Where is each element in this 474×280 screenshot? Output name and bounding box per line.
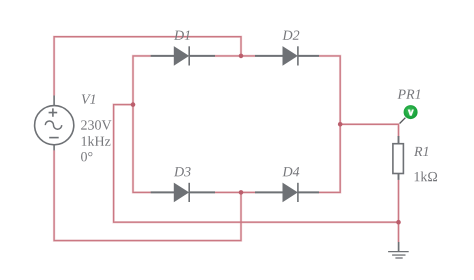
diode D4	[255, 183, 319, 202]
resistor R1	[393, 136, 404, 180]
label R1	[414, 147, 428, 156]
value 0deg	[81, 152, 92, 161]
wire positive node to R1 top	[340, 124, 398, 136]
node D3/D4 midpoint	[239, 190, 244, 195]
wire V1 top to D1/D2 junction	[54, 37, 241, 96]
node negative branch	[131, 102, 136, 107]
wire R1 bottom to ground node	[398, 180, 400, 242]
label D1	[174, 31, 190, 40]
value 1kOhm	[415, 171, 437, 181]
ac source V1	[35, 96, 74, 151]
diode D1	[151, 46, 215, 65]
label V1	[82, 94, 95, 103]
label D3	[174, 167, 191, 176]
label D2	[282, 31, 299, 40]
node R1 bottom / ground	[396, 220, 401, 225]
label D4	[282, 167, 299, 176]
wire D1 anode left column down to D3 anode	[133, 56, 151, 193]
wire negative rail to R1 bottom node	[114, 105, 399, 223]
node positive branch	[338, 122, 343, 127]
node D1/D2 midpoint	[239, 54, 244, 59]
value 1kHz	[82, 136, 111, 146]
wire D1 cathode to D2 anode	[215, 55, 255, 57]
probe PR1	[400, 105, 418, 123]
wire V1 bottom to D3/D4 junction	[54, 150, 241, 240]
ground	[388, 242, 409, 258]
diode D3	[151, 183, 215, 202]
wire D3 cathode to D4 anode	[215, 191, 255, 193]
wire D2 cathode right column down to D4 cathode	[319, 56, 340, 193]
diode D2	[255, 46, 319, 65]
label PR1	[397, 90, 420, 99]
value 230V	[81, 120, 111, 130]
